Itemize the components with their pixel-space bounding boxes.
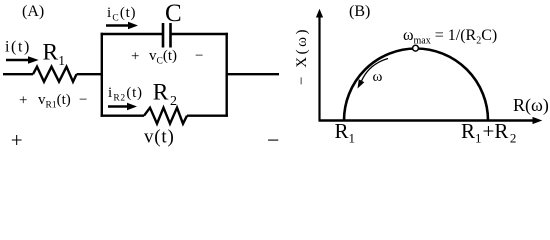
svg-text:+: + (131, 49, 139, 65)
capacitor C (163, 23, 171, 48)
x axis R(omega) (319, 117, 543, 124)
svg-text:R(ω): R(ω) (513, 95, 549, 116)
svg-text:−: − (79, 92, 87, 108)
wire top branch right segment (171, 33, 228, 35)
svg-text:− X(ω): − X(ω) (294, 27, 310, 85)
svg-text:v(t): v(t) (144, 127, 175, 148)
current arrow iC(t) (106, 22, 138, 30)
wire top branch left segment (101, 33, 163, 35)
resistor R1 (33, 67, 77, 82)
wire bottom branch left segment (101, 114, 144, 116)
current arrow i(t) (6, 56, 39, 64)
y axis -X(omega) (316, 9, 323, 121)
svg-text:vC(t): vC(t) (149, 48, 177, 67)
svg-text:(A): (A) (22, 3, 44, 20)
svg-text:+: + (11, 128, 23, 152)
svg-text:+: + (19, 93, 27, 109)
svg-text:(B): (B) (349, 3, 370, 20)
svg-text:−: − (267, 128, 279, 153)
svg-text:R1+R2: R1+R2 (461, 119, 516, 146)
wire bottom branch right segment (187, 114, 228, 116)
svg-text:ω: ω (373, 69, 383, 85)
marker at omega max (413, 45, 419, 51)
wire left lead (3, 73, 33, 75)
semicircle arc (344, 49, 488, 121)
resistor R2 (144, 108, 187, 124)
svg-text:C: C (165, 0, 182, 27)
wire R1 to node (77, 73, 104, 75)
wire output lead (227, 73, 279, 75)
wire left vertical of parallel box (101, 33, 103, 117)
direction arrow omega (358, 59, 389, 89)
wire right vertical of parallel box (225, 33, 227, 117)
svg-text:−: − (195, 48, 203, 64)
svg-text:iC(t): iC(t) (107, 5, 136, 24)
svg-text:i(t): i(t) (5, 39, 31, 56)
current arrow iR2(t) (108, 103, 137, 111)
